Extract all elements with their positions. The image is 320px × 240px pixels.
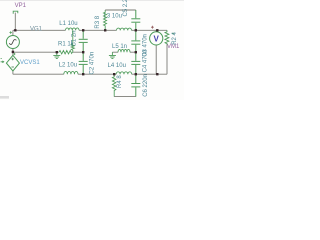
junction ground left / middle rail — [56, 51, 58, 53]
svg-text:R2 4: R2 4 — [172, 31, 178, 44]
capacitor C3 — [131, 30, 140, 52]
wire R3 top bracket — [105, 9, 136, 11]
svg-text:VG1: VG1 — [30, 27, 43, 33]
svg-text:C4 470n: C4 470n — [142, 50, 148, 73]
wire R2 bottom lead — [166, 45, 168, 75]
svg-text:C2 470n: C2 470n — [90, 52, 96, 75]
junction C5-C3 / top rail — [135, 29, 137, 31]
inductor L4 — [116, 72, 132, 74]
wire VM1 bottom lead — [155, 45, 157, 74]
svg-text:R1 1k: R1 1k — [58, 42, 75, 48]
wire lower sub-rail — [114, 96, 136, 98]
wire VG1 bottom stub — [12, 49, 14, 56]
capacitor C4 — [131, 52, 140, 74]
capacitor C5 — [131, 10, 140, 30]
arrow R2 — [172, 33, 174, 35]
wire bottom rail — [13, 71, 167, 74]
junction R3 bottom / top rail — [104, 29, 106, 31]
wire VP1 probe drop — [14, 13, 16, 31]
resistor R3 vertical — [104, 10, 107, 30]
capacitor C1 — [79, 30, 88, 52]
svg-text:R3 8: R3 8 — [95, 15, 101, 28]
svg-text:VCVS1: VCVS1 — [20, 60, 40, 66]
resistor R1b horizontal on middle rail — [59, 51, 72, 54]
inductor L5 — [118, 49, 130, 52]
ground right — [109, 52, 116, 58]
junction C2 bottom / bottom rail — [82, 73, 84, 75]
capacitor C2 — [79, 52, 88, 74]
inductor L1 — [66, 28, 80, 30]
svg-text:R4 8: R4 8 — [117, 75, 123, 88]
junction C1 top / top rail — [82, 29, 84, 31]
scrollbar corner — [0, 96, 9, 99]
wire middle rail right — [112, 51, 135, 53]
resistor R1 vertical lead + zigzag — [71, 30, 74, 52]
wire top rail — [13, 13, 167, 75]
wire VG1 top stub — [12, 30, 14, 35]
vcvs VCVS1 — [1, 53, 20, 71]
wire middle rail left — [13, 51, 83, 53]
ground left — [53, 52, 60, 58]
top border — [0, 0, 184, 1]
svg-text:VP1: VP1 — [15, 3, 27, 9]
capacitor C6 — [131, 74, 140, 96]
junction C4-C6 / bottom rail — [135, 73, 137, 75]
svg-text:C6 220n: C6 220n — [143, 74, 149, 97]
svg-text:L1 10u: L1 10u — [59, 21, 77, 27]
junction VP1 probe / top rail — [14, 29, 16, 31]
junction VG1 minus / VCVS1 / middle rail — [12, 51, 14, 53]
junction C1-C2 / middle rail — [82, 51, 84, 53]
svg-text:V: V — [154, 34, 160, 43]
resistor R4 vertical — [112, 74, 116, 96]
junction R4 top / bottom rail — [113, 73, 115, 75]
generator VG1 — [6, 31, 19, 48]
inductor L3 — [117, 28, 132, 30]
resistor R2 vertical — [165, 30, 169, 44]
svg-text:L2 10u: L2 10u — [59, 63, 77, 69]
probe VP1 head — [13, 11, 18, 14]
junction VM1 bottom / bottom rail — [156, 73, 158, 75]
svg-text:L4 10u: L4 10u — [108, 63, 126, 69]
junction C3-C4 / L5 node — [135, 51, 137, 53]
svg-text:C5 2.2n: C5 2.2n — [123, 0, 129, 17]
voltmeter VM1 — [150, 26, 163, 45]
junction VM1 top / top rail — [156, 29, 158, 31]
inductor L2 — [64, 71, 78, 74]
